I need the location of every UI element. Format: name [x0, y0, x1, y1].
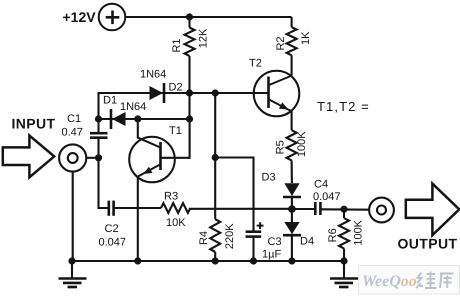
- resistor R2: [275, 17, 312, 55]
- node input ground: [68, 257, 75, 264]
- svg-text:10K: 10K: [166, 217, 186, 229]
- wire C2 to R3: [114, 207, 161, 209]
- wire T1 emitter: [137, 177, 139, 262]
- svg-text:OUTPUT: OUTPUT: [398, 236, 458, 252]
- diode D4: [283, 209, 314, 248]
- wire connector to C1/C2 node: [86, 157, 98, 159]
- svg-text:D1: D1: [103, 95, 117, 107]
- node D4 ground: [288, 257, 295, 264]
- resistor R1: [171, 17, 210, 56]
- node D3/D4/output: [288, 205, 296, 213]
- node R6 top: [340, 206, 347, 213]
- svg-text:100K: 100K: [353, 219, 365, 245]
- node R6 / ground: [340, 257, 347, 264]
- wire top rail: [125, 16, 291, 18]
- wire T1 collector: [137, 119, 139, 138]
- svg-text:R2: R2: [275, 36, 287, 50]
- svg-text:T2: T2: [249, 58, 262, 70]
- wire D3 to node: [291, 197, 293, 209]
- svg-text:INPUT: INPUT: [12, 116, 56, 132]
- node junction top rail / R1: [186, 13, 193, 20]
- wire T1 base: [161, 119, 190, 158]
- transistor T2: [249, 58, 299, 117]
- node C3 branch: [212, 154, 219, 161]
- svg-text:R6: R6: [327, 228, 339, 242]
- node T1 collector / D1 rail: [134, 115, 141, 122]
- resistor R6: [327, 209, 365, 248]
- svg-text:0.47: 0.47: [62, 127, 83, 139]
- svg-text:D3: D3: [262, 172, 276, 184]
- svg-text:100K: 100K: [296, 131, 308, 157]
- ground right: [330, 261, 358, 287]
- watermark box: [359, 266, 460, 295]
- resistor R3: [161, 191, 190, 230]
- svg-text:T1,T2 =: T1,T2 =: [317, 99, 370, 114]
- watermark CJK glyphs: [417, 272, 454, 289]
- node input / C1 / C2: [95, 154, 102, 161]
- OUTPUT arrow: [406, 184, 459, 236]
- capacitor C1: [62, 113, 108, 139]
- output connector J2: [369, 198, 394, 223]
- svg-text:WeeQoo: WeeQoo: [362, 273, 417, 290]
- wire C1 bottom to C2 corner: [99, 138, 109, 208]
- node R1 / bias rail: [186, 89, 193, 96]
- diode D3: [262, 172, 302, 198]
- svg-text:R4: R4: [198, 231, 210, 245]
- node D1 / C1 branch: [95, 115, 102, 122]
- svg-text:1µF: 1µF: [262, 249, 281, 261]
- svg-text:C2: C2: [105, 223, 119, 235]
- svg-text:T1: T1: [169, 125, 182, 137]
- wire R1 bottom: [188, 56, 190, 119]
- svg-text:1N64: 1N64: [140, 69, 166, 81]
- wire C4 to output connector: [320, 208, 369, 210]
- wire C1 top branch: [97, 92, 99, 133]
- power source +12V: [63, 4, 126, 31]
- svg-text:C3: C3: [268, 236, 282, 248]
- ground left: [59, 261, 87, 287]
- wire D1 rail: [99, 118, 190, 120]
- svg-text:1N64: 1N64: [120, 101, 146, 113]
- node R1 / D1 rail / T1 base: [186, 115, 193, 122]
- svg-text:R3: R3: [164, 191, 178, 203]
- diode D1: [103, 95, 146, 130]
- svg-text:R5: R5: [275, 140, 287, 154]
- node bias rail / R4 branch: [212, 89, 219, 96]
- wire R3 to D3/D4 node: [190, 208, 292, 210]
- node C3 ground: [250, 257, 257, 264]
- resistor R4: [198, 219, 236, 252]
- capacitor C4: [313, 179, 341, 216]
- svg-text:R1: R1: [171, 38, 183, 52]
- wire C3 bottom: [252, 237, 254, 261]
- wire C3 branch: [215, 158, 253, 232]
- resistor R5: [275, 130, 309, 160]
- capacitor C2: [99, 201, 127, 249]
- wire R4 bottom: [214, 252, 216, 261]
- wire ground rail: [72, 260, 344, 262]
- wire bias rail (D2 to T2 base): [99, 92, 269, 94]
- wire R5 to D3: [291, 160, 293, 183]
- node R4 ground: [212, 257, 219, 264]
- wire R6 bottom: [343, 248, 345, 261]
- svg-text:12K: 12K: [198, 28, 210, 48]
- wire node to C4: [292, 208, 315, 210]
- svg-text:C1: C1: [67, 113, 81, 125]
- node T1 emitter ground: [134, 257, 141, 264]
- capacitor C3: [246, 222, 282, 260]
- svg-text:C4: C4: [314, 179, 328, 191]
- svg-text:+12V: +12V: [63, 9, 97, 25]
- svg-text:0.047: 0.047: [313, 191, 341, 203]
- wire bias to R4: [214, 93, 216, 219]
- wire D4 bottom: [291, 235, 293, 261]
- wire connector to ground: [72, 172, 74, 261]
- transistor T1: [129, 125, 182, 182]
- wire R2 to T2 collector: [291, 55, 293, 75]
- svg-text:0.047: 0.047: [99, 237, 127, 249]
- svg-text:D2: D2: [169, 82, 183, 94]
- diode D2: [140, 69, 183, 104]
- INPUT arrow: [3, 136, 54, 178]
- svg-text:1K: 1K: [300, 31, 312, 45]
- wire T2 emitter to R5: [291, 112, 293, 131]
- input connector J1: [59, 144, 86, 171]
- svg-text:220K: 220K: [224, 223, 236, 249]
- svg-text:D4: D4: [300, 236, 314, 248]
